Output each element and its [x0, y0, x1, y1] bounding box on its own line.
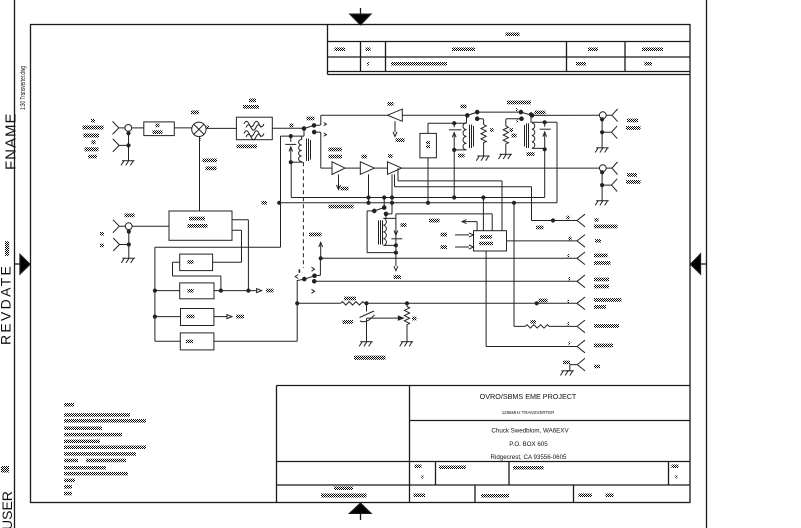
- wire A6 ptt out arrow: [462, 220, 477, 231]
- wire A4 output arrow: [214, 315, 232, 319]
- wire U5 bias down: [386, 174, 392, 214]
- input section labels: [83, 99, 315, 171]
- tx amplifier U3: [332, 162, 345, 175]
- bus line B2: [278, 201, 557, 204]
- ground J5: [595, 201, 609, 206]
- margin small user text: [1, 466, 9, 473]
- fork F2: [577, 235, 585, 248]
- multiplier box A4: [181, 309, 214, 326]
- LO bus top link: [155, 246, 281, 248]
- wire K1 to sequencer: [396, 214, 492, 231]
- ground F8: [560, 371, 574, 376]
- TX line to J5: [402, 167, 600, 169]
- wire attenuator to mixer: [174, 127, 192, 129]
- wire T2 to bus B1: [453, 150, 455, 198]
- switch S2 LO select: [295, 258, 320, 293]
- notes text block: [64, 403, 146, 495]
- svg-text:USER: USER: [0, 491, 15, 528]
- sequencer box A6: [474, 231, 507, 251]
- ground C5: [359, 342, 373, 347]
- wire mixer to filter: [206, 127, 236, 129]
- wire A7 bottom to bus B2: [427, 158, 429, 203]
- sheet edge right: [706, 0, 708, 528]
- right alignment marker: [691, 254, 707, 274]
- wire A6 input arrow 1: [455, 233, 474, 237]
- node S1 to transformer T1: [303, 129, 305, 137]
- relay K2 contacts: [466, 110, 534, 120]
- ground R2: [499, 154, 513, 159]
- resistor R1 dummy load: [477, 119, 486, 156]
- wire A7 top to T2: [428, 123, 454, 133]
- ground R1: [476, 156, 490, 161]
- transformer T3 with trimmer C4: [525, 113, 558, 151]
- wire U4 bias to bus: [368, 174, 370, 202]
- ground J3: [121, 258, 135, 263]
- TX line from S1: [321, 167, 332, 169]
- connector J5 antenna TX: [599, 162, 617, 201]
- right section labels: [329, 101, 641, 369]
- fork F4 wire: [314, 275, 585, 288]
- rx amplifier U2 (points left): [388, 109, 403, 121]
- ground J4: [595, 148, 609, 153]
- wire RX enable up arrow: [319, 242, 323, 260]
- svg-text:FNAME: FNAME: [3, 113, 20, 171]
- connector J1 144MHz input: [113, 121, 132, 160]
- top title block value labels: [335, 33, 664, 66]
- matching box A7: [420, 133, 437, 157]
- LO bus vertical: [154, 247, 156, 341]
- LO section labels: [100, 201, 354, 343]
- RX line top: [321, 114, 388, 116]
- resistor R2 dummy load: [503, 119, 521, 155]
- svg-text:Chuck Swedblom, WA6EXV: Chuck Swedblom, WA6EXV: [491, 428, 569, 435]
- transformer T1 with trimmer C1: [281, 135, 311, 248]
- wire K1 keyline down arrow: [394, 253, 398, 271]
- relay K1 coil: [367, 198, 396, 253]
- LO distribution line: [153, 289, 261, 293]
- wire J1 to attenuator: [132, 127, 144, 129]
- wire A4 input: [153, 315, 180, 318]
- mixer U1: [192, 122, 206, 136]
- svg-text:Ridgecrest, CA 93556-0605: Ridgecrest, CA 93556-0605: [490, 454, 567, 461]
- bottom center alignment marker: [350, 503, 372, 520]
- wiper arrow C5 to R4: [367, 316, 404, 320]
- fork F5 wire with resistor R3: [297, 297, 585, 310]
- svg-text:1:30 Transverter.dwg: 1:30 Transverter.dwg: [20, 66, 27, 110]
- wire A2 loop: [173, 262, 221, 290]
- trimmer C2 on K1: [391, 218, 402, 254]
- wire RX sense tap: [395, 174, 532, 220]
- multiplier box A3: [180, 283, 214, 299]
- top title block outline: [328, 25, 691, 75]
- multiplier box A5: [180, 333, 214, 350]
- svg-text:OVRO/SBMS EME PROJECT: OVRO/SBMS EME PROJECT: [480, 392, 577, 401]
- wire TX sense tap: [398, 168, 502, 231]
- tx amplifier U4: [360, 162, 374, 175]
- wire A1 upper output: [232, 220, 248, 291]
- fork F6 wire with resistor R5: [514, 203, 585, 333]
- svg-text:1296MHz TRANSVERTER: 1296MHz TRANSVERTER: [502, 410, 555, 415]
- fork F3 wire: [321, 252, 585, 265]
- attenuator AT1: [144, 122, 175, 136]
- connector J4 antenna RX: [599, 109, 617, 148]
- multiplier box A2: [180, 254, 213, 271]
- filter FL1 1296 bandpass: [236, 117, 272, 140]
- transformer T2 with trimmer C3: [449, 115, 474, 151]
- bottom title block outline: [277, 386, 691, 503]
- wire A5 input: [155, 340, 180, 342]
- wire T3 right to bus B2: [556, 122, 558, 203]
- wire A5 output to switch S2: [214, 279, 304, 341]
- svg-text:P.O. BOX 605: P.O. BOX 605: [509, 441, 548, 448]
- sheet edge left: [14, 0, 16, 528]
- ground J1: [121, 161, 135, 166]
- wire A6 from bus B1: [482, 198, 484, 231]
- fork F8 with ground: [567, 358, 585, 371]
- variable capacitor C5: [360, 303, 375, 341]
- wire U2 to relay K2: [402, 114, 467, 116]
- wire A6 bottom to fork F7: [486, 251, 577, 347]
- wire U4 to U5: [374, 167, 387, 169]
- ground R4: [400, 342, 414, 347]
- bus line B1: [291, 162, 545, 199]
- wire J3 to A1: [132, 225, 169, 227]
- connector J3 reference input: [113, 220, 132, 259]
- svg-text:REVDATE: REVDATE: [0, 264, 14, 345]
- top center alignment marker: [350, 8, 371, 25]
- margin small rev text: [5, 241, 9, 256]
- oscillator box A1: [169, 211, 232, 240]
- wire A6 output to fork F2: [507, 240, 578, 242]
- wire T3 cap to bus B1: [544, 149, 546, 197]
- left alignment marker: [15, 255, 31, 275]
- wire U3 bias down arrow: [337, 174, 341, 189]
- wire U2 bias down: [393, 121, 397, 136]
- wire filter to switch S1: [272, 127, 304, 129]
- wire A6 input arrow 2: [455, 245, 474, 249]
- tx amplifier U5: [388, 162, 402, 175]
- fork F1: [532, 214, 586, 227]
- switch S1 TR relay contact: [302, 115, 326, 168]
- potentiometer R4: [404, 303, 409, 341]
- drawing frame: [31, 25, 691, 503]
- fork F7: [577, 340, 585, 353]
- dashed relay linkage from T1: [302, 162, 304, 268]
- wire mixer LO port down: [199, 137, 201, 212]
- wire K2 to J4: [532, 114, 599, 116]
- wire A1 lower output: [213, 230, 242, 262]
- wire U3 to U4: [345, 167, 360, 169]
- bottom title block value labels: [321, 465, 679, 498]
